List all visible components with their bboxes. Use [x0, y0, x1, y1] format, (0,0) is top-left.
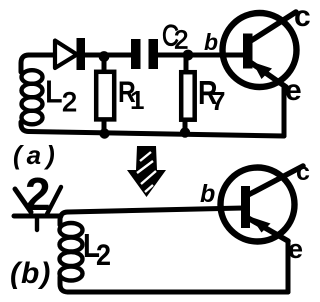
inductor L2 coil (a) [22, 70, 43, 124]
transistor VT2 emitter lead [248, 218, 288, 241]
wire bottom rail (b) [68, 290, 288, 295]
svg-text:c: c [294, 0, 311, 33]
resistor R1 body [96, 72, 114, 120]
diode cathode bar [77, 38, 86, 70]
wire top rail (a) [29, 53, 58, 58]
wire left side with corners (b) [60, 212, 68, 292]
inductor L2 coil (b) [60, 223, 83, 281]
wire emitter drop (b) [286, 242, 291, 292]
transistor VT1 base bar [243, 34, 253, 69]
transistor VT2 emitter arrowhead [251, 217, 271, 233]
wire left side with corners (a) [21, 55, 29, 132]
capacitor C2 left plate [131, 39, 141, 69]
svg-text:(a): (a) [13, 140, 60, 170]
transistor VT1 emitter lead [250, 62, 286, 87]
svg-text:c: c [296, 158, 310, 186]
svg-text:1: 1 [130, 85, 144, 115]
wire bottom rail (a) [29, 132, 284, 137]
capacitor C2 right plate [149, 39, 159, 69]
transistor VT1 circle (a) [223, 13, 297, 87]
node top of R7 [183, 50, 194, 61]
wire cathode to capacitor [82, 53, 133, 58]
svg-text:b: b [200, 180, 215, 208]
svg-text:(b): (b) [10, 257, 51, 290]
wire R1 top lead [102, 55, 107, 71]
transistor VT1 collector lead [249, 12, 296, 42]
wire R7 top lead [184, 55, 189, 71]
transistor VT1 emitter arrowhead [253, 62, 273, 79]
node bottom of R1 [99, 128, 109, 138]
node bottom of R7 [180, 127, 190, 137]
wire R7 bottom lead [183, 119, 188, 134]
resistor R7 body [181, 72, 195, 120]
diode VD (anode triangle) [55, 41, 77, 69]
wire top rail (b) [68, 208, 243, 212]
transistor VT2 base bar [241, 186, 250, 228]
svg-text:b: b [204, 29, 218, 55]
svg-text:L: L [45, 74, 62, 109]
svg-text:2: 2 [96, 239, 111, 273]
big down arrow [127, 146, 166, 197]
node top of R1 [99, 51, 110, 62]
arrow hatch [137, 152, 156, 192]
svg-text:e: e [288, 234, 303, 264]
crossed-out 2 mark [14, 168, 61, 230]
svg-text:e: e [285, 74, 302, 107]
svg-text:7: 7 [211, 86, 225, 116]
wire emitter drop (a) [282, 87, 287, 136]
transistor VT2 circle (b) [221, 168, 295, 242]
transistor VT2 collector lead [248, 166, 303, 195]
wire R1 bottom lead [102, 119, 107, 134]
wire capacitor to transistor base [156, 53, 243, 58]
svg-text:2: 2 [62, 87, 77, 117]
